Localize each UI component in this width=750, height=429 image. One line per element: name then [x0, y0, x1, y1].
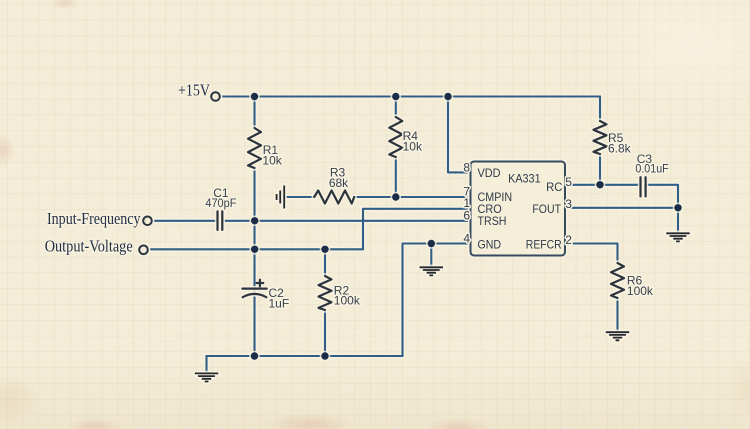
wire +15V rail	[220, 95, 600, 97]
wire ground rail to ground symbol	[205, 356, 207, 373]
svg-text:TRSH: TRSH	[478, 214, 507, 228]
junction node rail R4	[391, 91, 402, 102]
resistor R6	[611, 263, 654, 298]
wire pin 3 FOUT to node	[565, 207, 678, 209]
svg-text:VDD: VDD	[478, 166, 501, 180]
wire output line to R2 top	[324, 249, 326, 276]
wire node C1 down to output line	[253, 221, 255, 250]
resistor R1	[248, 128, 283, 168]
svg-text:10k: 10k	[403, 139, 423, 153]
wire input terminal to C1	[152, 220, 217, 222]
capacitor C1	[205, 186, 236, 230]
ground below bottom rail	[195, 373, 218, 381]
junction node rail R1	[249, 91, 260, 102]
capacitor C3	[635, 152, 668, 196]
svg-text:8: 8	[463, 161, 470, 175]
wire GND node stub to ground	[430, 244, 432, 267]
wire R5 bottom to pin 5 RC	[599, 154, 601, 185]
svg-text:FOUT: FOUT	[532, 202, 561, 216]
svg-text:10k: 10k	[262, 154, 282, 168]
IC U1 KA331 frequency-to-voltage converter	[471, 162, 566, 256]
junction node ground rail C2	[249, 351, 260, 362]
junction node FOUT C3	[673, 203, 684, 214]
svg-text:5: 5	[565, 175, 572, 189]
resistor R4	[389, 117, 423, 157]
wire pin 5 RC to C3	[565, 184, 640, 186]
svg-text:2: 2	[565, 233, 572, 247]
svg-text:6: 6	[463, 209, 470, 223]
svg-text:1uF: 1uF	[269, 297, 290, 311]
svg-text:4: 4	[463, 232, 470, 246]
junction node RC R5	[595, 180, 606, 191]
wire glow underlayer	[148, 97, 678, 374]
wire ground to R3 left	[284, 196, 314, 198]
resistor R5	[594, 121, 632, 155]
svg-text:3: 3	[565, 197, 572, 211]
svg-text:0.01uF: 0.01uF	[635, 162, 668, 176]
svg-text:100k: 100k	[627, 284, 654, 298]
junction node output R2	[320, 244, 331, 255]
wire rail to pin 8 VDD	[448, 97, 471, 173]
wire C3 right to FOUT node	[646, 185, 678, 208]
wire R3 right to pin 7 CMPIN	[354, 196, 471, 198]
ground below FOUT node	[666, 233, 689, 241]
wire bottom ground rail	[207, 355, 403, 357]
wire R1 bottom to node C1	[253, 168, 255, 221]
svg-text:REFCR: REFCR	[526, 237, 562, 251]
wire FOUT node to ground	[677, 208, 679, 233]
svg-text:68k: 68k	[329, 176, 349, 190]
wire R6 bottom to ground	[616, 298, 618, 332]
terminal Input-Frequency	[47, 209, 152, 228]
wire output node down through C2 to ground rail	[253, 249, 255, 356]
svg-text:470pF: 470pF	[205, 196, 236, 210]
svg-text:RC: RC	[546, 180, 563, 194]
svg-text:+15V: +15V	[178, 81, 210, 100]
terminal +15V	[178, 81, 220, 101]
wire rail to R5 top	[599, 97, 601, 122]
wire C1 to pin 6 TRSH	[222, 220, 470, 222]
ground left of R3	[277, 186, 285, 209]
junction node output C2	[249, 244, 260, 255]
wire rail to R1 top	[253, 97, 255, 129]
junction node rail VDD	[443, 91, 454, 102]
ground below GND node	[420, 267, 443, 275]
wire pin 2 REFCR to R6	[565, 244, 618, 264]
wire pin 1 CRO to output line	[363, 209, 471, 250]
junction node C1 R1	[249, 216, 260, 227]
resistor R2	[319, 276, 361, 310]
svg-text:100k: 100k	[334, 294, 361, 308]
wire output terminal line	[148, 248, 363, 250]
terminal Output-Voltage	[45, 237, 148, 256]
wire R2 bottom to ground rail	[324, 310, 326, 356]
wire pin 4 GND to down riser	[403, 244, 471, 357]
svg-text:GND: GND	[478, 237, 502, 251]
resistor R3	[314, 166, 354, 204]
svg-text:6.8k: 6.8k	[608, 141, 632, 155]
svg-text:Output-Voltage: Output-Voltage	[45, 237, 133, 256]
junction node R3 R4	[391, 192, 402, 203]
capacitor C2 polarized	[242, 280, 289, 311]
junction node GND pin4	[426, 238, 437, 249]
svg-text:KA331: KA331	[508, 172, 541, 186]
wire rail to R4 top	[395, 97, 397, 118]
junction node ground rail R2	[320, 351, 331, 362]
ground below R6	[606, 332, 629, 340]
svg-text:Input-Frequency: Input-Frequency	[47, 209, 141, 228]
wire R4 bottom to node R3	[395, 158, 397, 197]
